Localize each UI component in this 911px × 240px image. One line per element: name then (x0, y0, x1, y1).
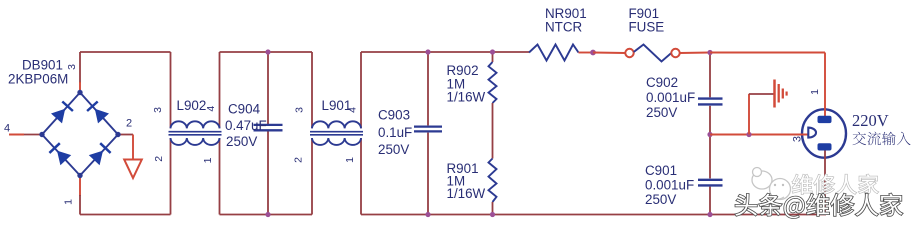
wire L902 pin3 vertical (170, 52, 172, 128)
ground GND1 (124, 160, 142, 179)
svg-text:C901: C901 (645, 163, 677, 178)
svg-text:0.47uF: 0.47uF (225, 118, 267, 133)
wire top rail segment A (80, 51, 171, 53)
svg-text:250V: 250V (226, 134, 257, 149)
junction top rail C904 (265, 49, 270, 54)
svg-text:1: 1 (63, 199, 75, 205)
svg-text:2: 2 (293, 157, 305, 163)
junction bottom rail C901 (707, 212, 712, 217)
wire C904 vertical (267, 52, 269, 215)
wire L901 pin2 vertical (311, 138, 313, 215)
watermark logo doodle (752, 168, 791, 200)
junction top rail C903 (425, 49, 430, 54)
svg-text:0.001uF: 0.001uF (646, 90, 695, 105)
svg-text:250V: 250V (645, 192, 676, 207)
resistor R902 (489, 62, 497, 103)
wire R901 bottom stub (492, 202, 494, 215)
svg-text:NTCR: NTCR (545, 20, 583, 35)
watermark text line 2 (735, 194, 902, 219)
svg-text:2KBP06M: 2KBP06M (8, 72, 68, 87)
connector J901 body (802, 109, 846, 157)
junction bottom rail C903 (425, 212, 430, 217)
svg-text:1/16W: 1/16W (447, 186, 486, 201)
inductor L901 (310, 121, 363, 145)
node bridge top vertex (77, 90, 82, 95)
node bridge right vertex (115, 132, 120, 137)
wire L902 pin1 vertical (219, 138, 221, 215)
svg-text:220V: 220V (852, 111, 889, 130)
wire L902 pin2 vertical (170, 138, 172, 215)
wire mid branch to connector pin3 (710, 134, 808, 136)
wire top rail segment B (220, 51, 313, 53)
wire NR901 to node (579, 52, 594, 54)
node bridge left vertex (39, 132, 44, 137)
svg-text:4: 4 (347, 107, 359, 113)
wire L901 pin4 vertical (360, 52, 362, 128)
diode D4 bottom-right (89, 143, 111, 165)
fuse F901 left terminal (625, 49, 633, 57)
svg-text:1: 1 (809, 89, 821, 95)
node bridge bottom vertex (77, 173, 82, 178)
svg-text:1/16W: 1/16W (447, 90, 486, 105)
label AC input chinese (853, 132, 911, 146)
diode D3 bottom-left (49, 143, 71, 165)
svg-text:0.1uF: 0.1uF (378, 125, 412, 140)
junction top rail C902 (707, 50, 712, 55)
svg-text:1: 1 (202, 157, 214, 163)
svg-text:2: 2 (126, 118, 132, 130)
junction earth branch (746, 132, 751, 137)
wire L902 pin4 vertical (219, 52, 221, 128)
capacitor C902 (698, 99, 723, 105)
svg-text:FUSE: FUSE (629, 20, 665, 35)
capacitor C904 (254, 125, 283, 130)
svg-text:C903: C903 (378, 108, 410, 123)
watermark text line 1 (792, 174, 878, 194)
capacitor C901 (698, 180, 723, 186)
junction bottom rail R901 (490, 212, 495, 217)
wire pin 4 stub (9, 134, 42, 136)
wire pin 2 stub (118, 135, 133, 160)
junction bottom rail C904 (265, 212, 270, 217)
svg-text:250V: 250V (646, 105, 677, 120)
diode D2 top-right (87, 102, 109, 124)
wire L901 pin3 vertical (311, 52, 313, 128)
wire R902-R901 middle (492, 103, 494, 159)
connector J901 bottom slot (818, 143, 832, 150)
wire C902-C901 vertical (709, 53, 711, 215)
wire bottom rail segment C (361, 214, 826, 216)
svg-text:DB901: DB901 (22, 58, 63, 73)
svg-text:3: 3 (152, 107, 164, 113)
wire connector bottom vertical (824, 151, 826, 215)
wire bridge pin 1 to bottom rail (79, 176, 81, 215)
capacitor C903 (414, 127, 442, 132)
svg-text:4: 4 (205, 106, 217, 112)
inductor L902 (169, 121, 222, 145)
resistor R901 (489, 159, 497, 203)
wire C903 vertical (427, 52, 429, 215)
wire bottom rail segment A (80, 214, 171, 216)
svg-text:0.001uF: 0.001uF (645, 178, 694, 193)
fuse F901 element (634, 45, 672, 62)
svg-text:3: 3 (66, 64, 78, 70)
wire connector pin1 vertical (824, 53, 826, 117)
wire R902 top stub (492, 52, 494, 62)
junction top rail R902 (490, 49, 495, 54)
svg-text:C902: C902 (646, 75, 678, 90)
wire fuse to junction (680, 52, 710, 55)
svg-text:2: 2 (153, 156, 165, 162)
fuse F901 right terminal (671, 49, 679, 57)
svg-text:250V: 250V (378, 142, 409, 157)
wire bridge pin 3 to top rail (79, 52, 81, 93)
junction mid node C902-C901 (707, 132, 712, 137)
wire node to fuse (593, 52, 625, 55)
svg-text:1: 1 (344, 157, 356, 163)
wire bottom rail segment B (220, 214, 313, 216)
earth ground symbol (775, 80, 787, 108)
svg-text:L902: L902 (177, 98, 207, 113)
wire top rail segment C (361, 51, 529, 53)
diode D1 top-left (51, 102, 73, 124)
bridge DB901 diamond (42, 93, 118, 176)
wire top rail segment D (710, 52, 825, 54)
thermistor NR901 (529, 45, 579, 61)
svg-text:3: 3 (792, 136, 804, 142)
wire earth branch vertical (748, 94, 750, 135)
svg-text:4: 4 (4, 123, 10, 135)
wire L901 pin1 vertical (360, 138, 362, 215)
connector J901 top slot (818, 116, 832, 123)
connector J901 left prong (808, 128, 816, 138)
wire earth stem (749, 93, 774, 95)
svg-text:3: 3 (293, 107, 305, 113)
svg-text:C904: C904 (228, 102, 261, 117)
junction node after NR901 (590, 50, 596, 56)
